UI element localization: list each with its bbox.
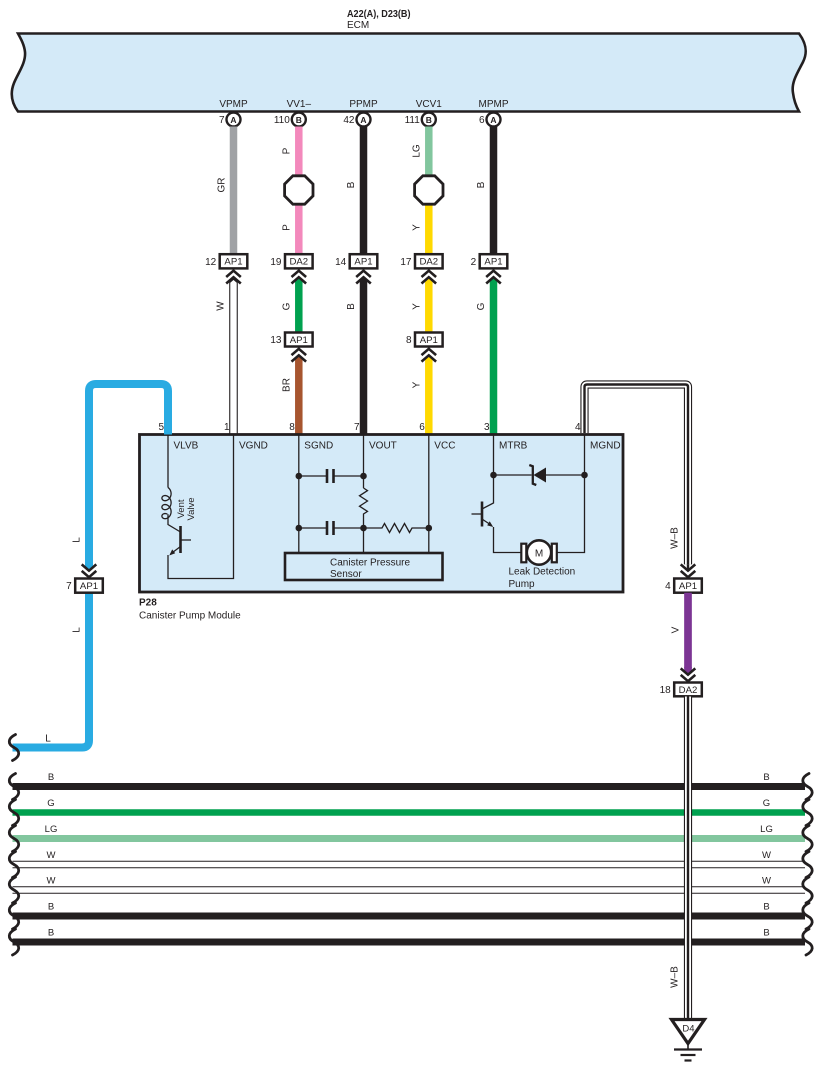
svg-text:LG: LG [411, 144, 422, 158]
svg-text:18: 18 [660, 685, 672, 696]
svg-text:Leak Detection: Leak Detection [509, 567, 576, 578]
svg-text:3: 3 [484, 422, 490, 433]
svg-text:19: 19 [270, 257, 282, 268]
svg-text:AP1: AP1 [290, 335, 308, 346]
svg-text:110: 110 [274, 115, 290, 126]
svg-text:DA2: DA2 [679, 685, 698, 696]
svg-text:P: P [281, 147, 292, 154]
wire LG light-green VCV1 upper [425, 127, 433, 191]
svg-text:6: 6 [419, 422, 425, 433]
connector 19 DA2 [285, 254, 313, 268]
svg-text:G: G [763, 798, 770, 809]
svg-text:B: B [48, 772, 54, 783]
svg-text:8: 8 [406, 335, 412, 346]
wire Y below 8 AP1 [425, 356, 433, 435]
Canister Pressure Sensor box [285, 553, 443, 580]
svg-text:W: W [47, 876, 56, 887]
MTRB lead pin 3 [482, 435, 494, 510]
ECM pin 111(B) terminal circle [422, 113, 436, 127]
svg-text:B: B [763, 772, 769, 783]
bus wire W y=864.5 [13, 861, 806, 869]
vent valve transistor Q [168, 514, 181, 532]
vent valve coil [162, 488, 171, 519]
svg-text:MPMP: MPMP [479, 99, 509, 110]
svg-text:A: A [490, 115, 496, 125]
wire W white pin1 VGND [229, 278, 238, 435]
ground D4 [672, 1020, 705, 1044]
chevron above 18 DA2 [687, 680, 689, 682]
svg-text:VV1–: VV1– [287, 99, 312, 110]
svg-text:B: B [346, 303, 357, 310]
svg-text:4: 4 [575, 422, 581, 433]
svg-text:VCC: VCC [434, 441, 455, 452]
svg-text:G: G [476, 302, 487, 310]
resistor horizontal [364, 524, 429, 533]
bus wire W y=890 [13, 886, 806, 894]
svg-text:Sensor: Sensor [330, 569, 362, 580]
chevron under 8 AP1 [428, 347, 430, 350]
P28 Canister Pump Module box [140, 435, 624, 593]
svg-text:GR: GR [217, 178, 228, 193]
connector 2 AP1 [480, 254, 508, 268]
wire GR gray VPMP [230, 127, 238, 255]
connector 14 AP1 [350, 254, 378, 268]
svg-text:17: 17 [400, 257, 412, 268]
connector 8 AP1 [415, 333, 443, 347]
bus wire B y=786.5 [13, 783, 806, 790]
wire V violet [684, 593, 692, 669]
MGND lead pin 4 [557, 435, 585, 553]
bus wire G y=812.5 [13, 809, 806, 816]
SGND lead pin 8 [298, 435, 300, 554]
svg-text:A: A [230, 115, 236, 125]
bus wire B y=942 [13, 939, 806, 946]
svg-text:B: B [763, 902, 769, 913]
svg-text:8: 8 [289, 422, 295, 433]
svg-text:Canister Pump Module: Canister Pump Module [139, 611, 241, 622]
svg-text:AP1: AP1 [80, 581, 98, 592]
svg-text:111: 111 [405, 115, 421, 126]
bus wire LG y=838.5 [13, 835, 806, 842]
wire P pink VV1- [295, 127, 303, 255]
svg-text:4: 4 [665, 581, 671, 592]
svg-text:SGND: SGND [304, 441, 333, 452]
svg-text:W: W [762, 850, 771, 861]
svg-text:13: 13 [270, 335, 282, 346]
svg-text:BR: BR [281, 378, 292, 392]
chevron under 2 AP1 [493, 268, 495, 271]
svg-text:V: V [671, 626, 682, 633]
svg-text:VLVB: VLVB [174, 441, 199, 452]
svg-text:PPMP: PPMP [349, 99, 378, 110]
zener diode [494, 474, 532, 476]
svg-text:DA2: DA2 [419, 257, 438, 268]
svg-text:Y: Y [411, 224, 422, 231]
svg-text:MGND: MGND [590, 441, 621, 452]
connector 4 AP1 [674, 579, 702, 593]
wire B black PPMP [360, 127, 368, 255]
svg-text:42: 42 [343, 115, 355, 126]
pump transistor Q [481, 502, 484, 527]
svg-text:MTRB: MTRB [499, 441, 528, 452]
ECM pin 6(A) terminal circle [487, 113, 501, 127]
svg-text:P: P [281, 224, 292, 231]
wire W-B from pin 4 [585, 385, 689, 565]
svg-text:B: B [48, 928, 54, 939]
svg-text:W: W [762, 876, 771, 887]
ECM pin 110(B) terminal circle [292, 113, 306, 127]
connector 18 DA2 [674, 683, 702, 697]
wire G below 2 AP1 [490, 278, 498, 435]
svg-text:M: M [535, 549, 543, 560]
chevron above 4 AP1 [687, 576, 689, 578]
svg-text:12: 12 [205, 257, 217, 268]
svg-text:LG: LG [760, 824, 773, 835]
svg-text:14: 14 [335, 257, 347, 268]
leak detection pump motor M [521, 544, 526, 563]
svg-text:7: 7 [354, 422, 360, 433]
blue wire break squiggle [9, 735, 18, 761]
svg-text:B: B [346, 181, 357, 188]
wire B below 14 AP1 [360, 278, 368, 435]
chevron under 19 DA2 [298, 268, 300, 271]
splice octagon on VCV1 wire [415, 176, 443, 204]
svg-text:B: B [426, 115, 432, 125]
capacitor C lower [299, 527, 327, 529]
ECM pin 7(A) terminal circle [227, 113, 241, 127]
ECM connector band [12, 34, 806, 112]
svg-text:G: G [47, 798, 54, 809]
svg-text:2: 2 [471, 257, 477, 268]
svg-text:Valve: Valve [186, 497, 197, 520]
svg-text:P28: P28 [139, 598, 157, 609]
svg-text:Y: Y [411, 303, 422, 310]
svg-text:7: 7 [66, 581, 72, 592]
VOUT lead pin 7 with resistor [363, 435, 365, 489]
wire Y below 17 DA2 [425, 278, 433, 333]
svg-text:5: 5 [158, 422, 164, 433]
svg-text:W: W [47, 850, 56, 861]
svg-text:Y: Y [411, 381, 422, 388]
splice octagon on VV1- wire [285, 176, 313, 204]
svg-text:AP1: AP1 [420, 335, 438, 346]
connector 12 AP1 [220, 254, 248, 268]
svg-text:B: B [476, 181, 487, 188]
svg-text:DA2: DA2 [289, 257, 308, 268]
svg-text:AP1: AP1 [679, 581, 697, 592]
ECM pin 42(A) terminal circle [357, 113, 371, 127]
wire G below 19 DA2 [295, 278, 303, 333]
connector 13 AP1 [285, 333, 313, 347]
VCC lead pin 6 [428, 435, 430, 554]
svg-text:VPMP: VPMP [219, 99, 248, 110]
svg-text:A: A [360, 115, 366, 125]
svg-text:AP1: AP1 [354, 257, 372, 268]
chevron under 13 AP1 [298, 347, 300, 350]
svg-text:Pump: Pump [509, 579, 536, 590]
svg-text:VCV1: VCV1 [416, 99, 443, 110]
svg-text:L: L [72, 537, 83, 543]
wire L blue from pin 5 [89, 384, 168, 564]
svg-text:ECM: ECM [347, 20, 369, 31]
svg-text:D4: D4 [682, 1024, 694, 1035]
capacitor C upper [299, 475, 327, 477]
svg-text:L: L [45, 734, 51, 745]
connector 7 AP1 [85, 562, 93, 570]
svg-text:7: 7 [219, 115, 225, 126]
vent valve lead from pin 5 [167, 435, 169, 488]
connector 17 DA2 [415, 254, 443, 268]
svg-text:B: B [48, 902, 54, 913]
svg-text:AP1: AP1 [484, 257, 502, 268]
svg-text:B: B [763, 928, 769, 939]
wire Y yellow VCV1 lower [425, 190, 433, 254]
wire W-B to ground D4 [684, 697, 692, 1020]
svg-text:W: W [216, 301, 227, 311]
svg-text:B: B [296, 115, 302, 125]
chevron under 12 AP1 [233, 268, 235, 271]
svg-text:A22(A), D23(B): A22(A), D23(B) [347, 9, 411, 20]
svg-text:L: L [72, 627, 83, 633]
chevron under 17 DA2 [428, 268, 430, 271]
chevron under 14 AP1 [363, 268, 365, 271]
svg-text:G: G [281, 302, 292, 310]
vent valve return to pin 1 [168, 436, 234, 579]
svg-text:AP1: AP1 [224, 257, 242, 268]
svg-text:1: 1 [224, 422, 230, 433]
svg-text:W–B: W–B [670, 527, 681, 549]
svg-text:VGND: VGND [239, 441, 268, 452]
svg-text:Canister Pressure: Canister Pressure [330, 558, 410, 569]
svg-text:6: 6 [479, 115, 485, 126]
wire BR below 13 AP1 [295, 356, 303, 435]
svg-text:VOUT: VOUT [369, 441, 397, 452]
svg-text:W–B: W–B [670, 966, 681, 988]
bus wire B y=916 [13, 913, 806, 920]
svg-text:LG: LG [45, 824, 58, 835]
wire B black MPMP [490, 127, 498, 255]
